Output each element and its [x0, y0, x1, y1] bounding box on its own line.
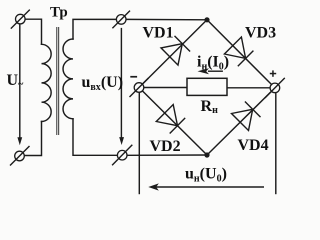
wire U~ measurement line — [19, 24, 21, 138]
wire right output rail — [275, 91, 277, 194]
wire bridge diagonal left-top (VD1 branch) — [139, 20, 207, 88]
wire secondary bottom lead — [73, 119, 117, 156]
svg-text:VD1: VD1 — [143, 25, 174, 42]
wire secondary top lead — [73, 19, 117, 39]
svg-text:U~: U~ — [7, 72, 25, 90]
arrow U~ (down) — [17, 137, 22, 145]
diode VD3 — [224, 37, 253, 66]
diode VD4 — [232, 102, 261, 131]
wire bridge diagonal top-right (VD3 branch) — [207, 20, 275, 88]
arrow u_n (left) — [148, 183, 264, 190]
diode VD2 — [156, 105, 185, 134]
terminal T3 — [10, 146, 30, 166]
arrow i_n (left) — [198, 68, 223, 74]
svg-text:iн(I0): iн(I0) — [197, 54, 229, 73]
svg-text:VD2: VD2 — [150, 138, 181, 155]
resistor Rn — [187, 78, 227, 95]
wire primary bottom lead — [24, 122, 41, 156]
svg-text:VD4: VD4 — [238, 137, 269, 154]
wire left output rail — [138, 91, 140, 194]
node left (minus) terminal — [130, 78, 149, 97]
node right (plus) terminal — [265, 78, 285, 98]
wire u_vx measurement line — [120, 29, 122, 139]
wire resistor to right node — [227, 87, 273, 89]
svg-text:uн(U0): uн(U0) — [185, 166, 227, 185]
svg-text:Rн: Rн — [201, 98, 219, 116]
transformer Tp secondary winding — [63, 39, 73, 119]
diode VD1 — [161, 36, 190, 65]
label plus (right node) — [270, 70, 276, 76]
wire primary top lead — [25, 19, 42, 44]
wire bridge diagonal left-bottom (VD2 branch) — [139, 88, 207, 156]
svg-text:VD3: VD3 — [245, 25, 276, 42]
transformer core line 1 — [56, 27, 58, 135]
label minus (left node) — [130, 76, 137, 78]
node bottom junction dot — [204, 152, 209, 157]
terminal T4 — [112, 145, 132, 166]
node top junction dot — [204, 17, 209, 22]
terminal T1 — [11, 10, 30, 29]
wire top rail to bridge top node — [126, 18, 207, 20]
terminal T2 — [112, 11, 130, 29]
arrow u_vx (down) — [119, 137, 124, 145]
wire bottom rail to bridge bottom node — [127, 154, 207, 156]
svg-text:uвх(U): uвх(U) — [82, 74, 124, 93]
svg-text:Тр: Тр — [50, 5, 68, 21]
transformer Tp primary winding — [42, 44, 52, 121]
wire bridge diagonal bottom-right (VD4 branch) — [207, 88, 275, 155]
wire left node to resistor — [141, 87, 187, 89]
transformer core line 2 — [58, 27, 60, 135]
